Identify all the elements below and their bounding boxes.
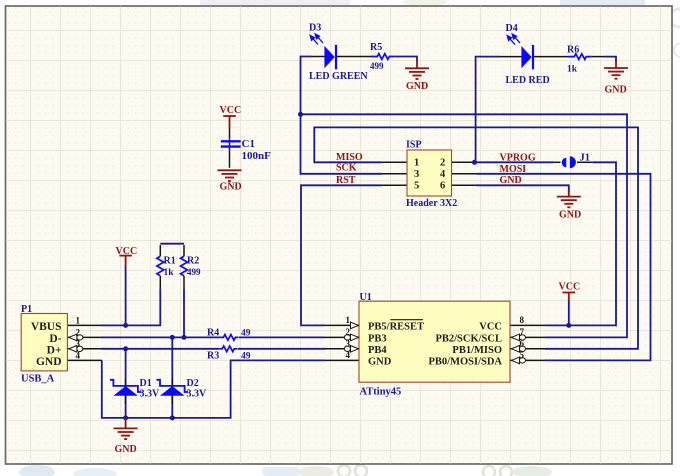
svg-text:D4: D4 <box>506 23 518 34</box>
svg-text:2: 2 <box>346 327 351 337</box>
svg-text:R2: R2 <box>187 256 199 267</box>
svg-text:P1: P1 <box>21 304 32 315</box>
svg-text:C1: C1 <box>242 138 255 150</box>
svg-text:7: 7 <box>520 327 525 337</box>
svg-text:1: 1 <box>346 315 351 325</box>
svg-text:5: 5 <box>520 350 525 360</box>
svg-text:R4: R4 <box>207 327 219 338</box>
svg-text:ATtiny45: ATtiny45 <box>360 387 402 398</box>
svg-text:ISP: ISP <box>406 139 422 150</box>
svg-text:R3: R3 <box>207 351 219 362</box>
svg-text:1k: 1k <box>567 65 578 75</box>
svg-text:R6: R6 <box>567 45 579 56</box>
svg-text:1: 1 <box>76 315 81 325</box>
svg-text:VCC: VCC <box>220 105 242 116</box>
svg-text:R5: R5 <box>370 42 382 53</box>
svg-text:VCC: VCC <box>116 246 138 257</box>
svg-text:J1: J1 <box>580 153 591 164</box>
svg-text:VCC: VCC <box>479 321 502 332</box>
svg-text:D-: D- <box>49 333 61 345</box>
svg-text:LED RED: LED RED <box>506 75 550 86</box>
svg-text:3.3V: 3.3V <box>140 389 161 400</box>
svg-text:1: 1 <box>414 158 419 169</box>
svg-text:499: 499 <box>370 61 384 71</box>
svg-text:D3: D3 <box>309 23 321 34</box>
svg-text:D1: D1 <box>140 378 152 389</box>
svg-text:GND: GND <box>559 210 581 221</box>
svg-text:GND: GND <box>368 356 392 367</box>
svg-text:SCK: SCK <box>336 163 357 174</box>
svg-text:49: 49 <box>241 352 251 362</box>
svg-text:PB0/MOSI/SDA: PB0/MOSI/SDA <box>428 356 502 367</box>
svg-text:499: 499 <box>187 267 201 277</box>
svg-text:GND: GND <box>115 444 137 455</box>
svg-text:Header 3X2: Header 3X2 <box>406 198 457 209</box>
svg-text:PB5/RESET: PB5/RESET <box>368 321 424 332</box>
svg-text:GND: GND <box>500 175 522 186</box>
svg-text:MISO: MISO <box>336 152 363 163</box>
svg-text:R1: R1 <box>164 256 176 267</box>
svg-text:PB3: PB3 <box>368 333 387 344</box>
svg-text:3.3V: 3.3V <box>187 389 208 400</box>
svg-text:2: 2 <box>76 327 81 337</box>
svg-text:U1: U1 <box>360 292 372 303</box>
svg-text:GND: GND <box>36 356 62 368</box>
svg-text:6: 6 <box>520 338 525 348</box>
svg-text:RST: RST <box>336 175 356 186</box>
svg-text:GND: GND <box>406 81 428 92</box>
svg-text:GND: GND <box>605 85 627 96</box>
svg-text:VCC: VCC <box>559 282 581 293</box>
svg-text:4: 4 <box>440 169 446 180</box>
svg-text:VPROG: VPROG <box>500 153 536 164</box>
svg-text:D+: D+ <box>47 344 62 356</box>
svg-text:PB2/SCK/SCL: PB2/SCK/SCL <box>435 333 502 344</box>
svg-text:49: 49 <box>241 328 251 338</box>
svg-text:PB4: PB4 <box>368 345 387 356</box>
svg-text:8: 8 <box>520 315 525 325</box>
svg-text:1k: 1k <box>164 268 175 278</box>
svg-text:4: 4 <box>76 350 81 360</box>
svg-text:6: 6 <box>440 181 445 192</box>
svg-text:MOSI: MOSI <box>500 164 527 175</box>
svg-text:GND: GND <box>220 182 242 193</box>
svg-text:3: 3 <box>346 338 351 348</box>
svg-text:4: 4 <box>346 350 351 360</box>
svg-text:USB_A: USB_A <box>21 374 55 385</box>
svg-text:3: 3 <box>76 339 81 349</box>
svg-text:5: 5 <box>414 181 419 192</box>
svg-text:D2: D2 <box>187 378 199 389</box>
svg-text:PB1/MISO: PB1/MISO <box>452 345 502 356</box>
svg-text:3: 3 <box>414 169 419 180</box>
svg-text:VBUS: VBUS <box>31 321 62 333</box>
svg-text:LED GREEN: LED GREEN <box>309 71 368 82</box>
svg-text:100nF: 100nF <box>242 150 272 162</box>
svg-text:2: 2 <box>440 158 445 169</box>
